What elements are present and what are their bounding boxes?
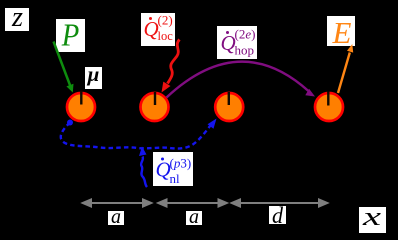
- svg-text:z: z: [11, 1, 23, 33]
- x-axis dimension arrow a (between particle 1 and 2): [82, 199, 153, 208]
- label a (first spacing): [108, 204, 124, 228]
- label d (third spacing): [269, 203, 286, 228]
- x-axis dimension arrow d (between particle 3 and 4): [231, 199, 329, 208]
- label Qdot_nl^(p3) (non-local heat): [153, 152, 193, 186]
- svg-text:loc: loc: [158, 29, 174, 43]
- svg-text:P: P: [61, 17, 79, 53]
- dipole stick on particle 3: [228, 92, 230, 105]
- svg-text:hop: hop: [235, 43, 255, 58]
- svg-text:Q: Q: [144, 17, 159, 41]
- label Qdot_loc^(2) (local dissipation): [141, 13, 175, 47]
- purple curved arrow Q_hop from particle 2 to particle 4: [167, 62, 316, 98]
- svg-text:E: E: [332, 15, 352, 50]
- label x (horizontal axis): [359, 202, 386, 233]
- svg-text:(2e): (2e): [235, 27, 256, 42]
- particle 1 (circle): [67, 93, 95, 121]
- blue dot at start of non-local path on particle 1: [67, 120, 73, 126]
- svg-text:(2): (2): [158, 13, 173, 28]
- label a (second spacing): [186, 204, 202, 228]
- particle 4 (circle): [315, 93, 343, 121]
- label P (power source): [56, 17, 85, 53]
- svg-text:nl: nl: [170, 171, 181, 186]
- dipole stick on particle 4: [327, 92, 329, 106]
- x-axis dimension arrow a (between particle 2 and 3): [157, 199, 228, 208]
- label E (electric field): [327, 15, 355, 50]
- orange arrow particle 4 to E: [338, 44, 353, 93]
- particle 3 (circle): [215, 93, 243, 121]
- svg-text:a: a: [189, 204, 199, 228]
- particle 2 (circle): [141, 93, 169, 121]
- blue squiggly arrow from Q_nl label to the dashed curve: [139, 147, 147, 188]
- label Qdot_hop^(2e) (hopping heat): [217, 26, 257, 59]
- svg-text:Q: Q: [221, 31, 236, 55]
- blue arrowhead at particle 3: [208, 119, 217, 129]
- blue dashed curve particle 1 to particle 3 (non-local): [61, 122, 213, 149]
- red squiggly arrow Q_loc to particle 2: [162, 40, 180, 93]
- label z (vertical axis): [5, 1, 29, 33]
- svg-text:a: a: [111, 204, 121, 228]
- label mu (dipole moment): [85, 62, 102, 89]
- svg-text:d: d: [272, 203, 283, 228]
- dipole stick on particle 2: [154, 92, 156, 105]
- dipole stick on particle 1: [80, 91, 82, 105]
- svg-text:(p3): (p3): [170, 156, 192, 171]
- green arrow P to particle 1: [54, 42, 74, 93]
- svg-text:μ: μ: [87, 62, 100, 86]
- svg-text:x: x: [361, 202, 381, 231]
- svg-text:Q: Q: [156, 158, 171, 182]
